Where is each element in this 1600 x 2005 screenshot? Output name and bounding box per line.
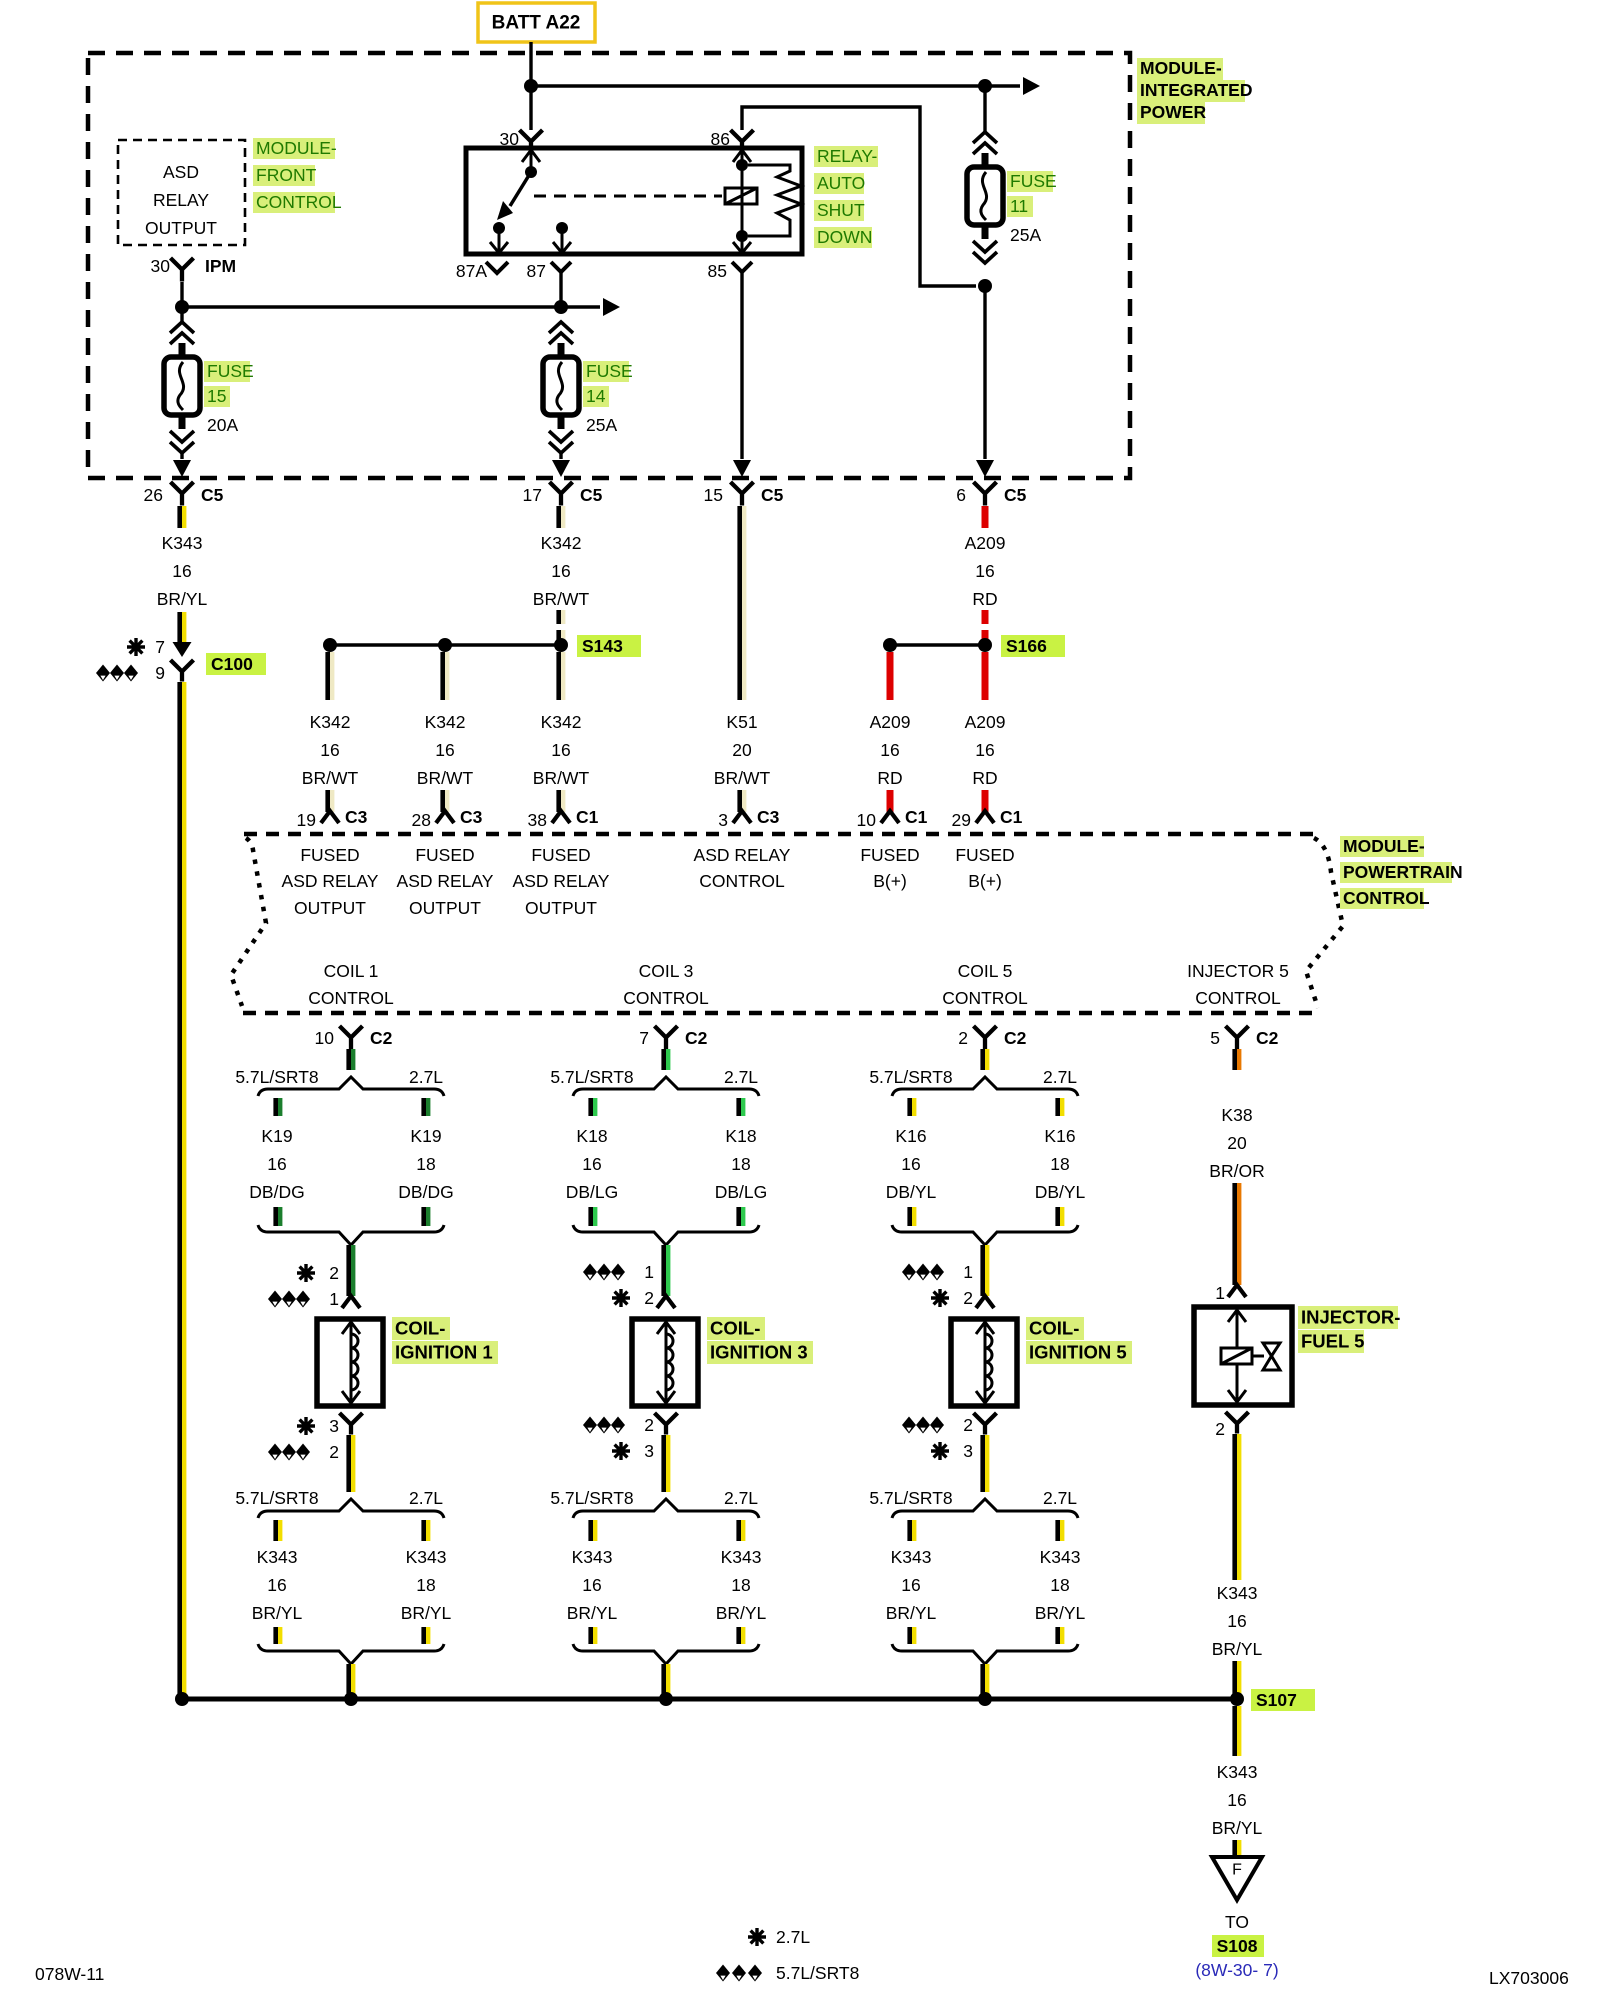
wire battery bus down to relay pin 30	[529, 86, 532, 130]
svg-text:C5: C5	[761, 485, 784, 505]
svg-text:RELAY: RELAY	[153, 190, 209, 210]
wire stub 5.7L coil 1 lower	[273, 1207, 282, 1226]
wire label A209 16 RD branch 2	[965, 712, 1006, 788]
connector at ignition coil 1 top	[342, 1296, 360, 1308]
wire K343 below injector	[1232, 1434, 1241, 1580]
PCM pin function INJECTOR 5 CONTROL	[1187, 961, 1289, 1008]
wire coil 5 ground run to S107	[980, 1664, 989, 1699]
splice S166	[883, 635, 1065, 657]
svg-text:K343: K343	[162, 533, 203, 553]
svg-text:LX703006: LX703006	[1489, 1968, 1569, 1988]
relay switch blade	[497, 172, 531, 220]
svg-text:28: 28	[412, 810, 431, 830]
wire coil 3 ground run to S107	[661, 1664, 670, 1699]
split brace coil 5 lower	[892, 1499, 1078, 1518]
svg-text:BR/WT: BR/WT	[533, 768, 590, 788]
wire coil 1 control below C2	[346, 1049, 355, 1070]
wire IPM output bus with arrow	[182, 298, 620, 316]
svg-text:16: 16	[267, 1575, 286, 1595]
svg-text:2: 2	[644, 1288, 654, 1308]
svg-text:K16: K16	[895, 1126, 926, 1146]
svg-text:K343: K343	[572, 1547, 613, 1567]
svg-text:K343: K343	[1040, 1547, 1081, 1567]
svg-text:18: 18	[416, 1154, 435, 1174]
svg-text:CONTROL: CONTROL	[1343, 888, 1430, 908]
svg-text:16: 16	[435, 740, 454, 760]
svg-text:30: 30	[151, 256, 171, 276]
junction fuse 11 output	[978, 279, 992, 293]
svg-text:CONTROL: CONTROL	[623, 988, 709, 1008]
svg-text:1: 1	[329, 1289, 339, 1309]
svg-text:BR/YL: BR/YL	[401, 1603, 452, 1623]
svg-text:C3: C3	[460, 807, 483, 827]
svg-text:OUTPUT: OUTPUT	[145, 218, 217, 238]
wire label K343 16 BR/YL	[157, 533, 208, 609]
svg-text:C3: C3	[345, 807, 368, 827]
svg-text:BR/YL: BR/YL	[567, 1603, 618, 1623]
svg-text:K343: K343	[721, 1547, 762, 1567]
svg-text:OUTPUT: OUTPUT	[409, 898, 481, 918]
wire stub to merge coil 5 left	[907, 1627, 916, 1644]
svg-text:K19: K19	[261, 1126, 292, 1146]
svg-text:16: 16	[1227, 1611, 1246, 1631]
svg-text:87: 87	[527, 261, 546, 281]
wire stub K343 18 coil 5	[1055, 1520, 1064, 1541]
wire stub K343 16 coil 5	[907, 1520, 916, 1541]
svg-text:2: 2	[329, 1263, 339, 1283]
svg-text:ASD RELAY: ASD RELAY	[282, 871, 379, 891]
injector pin 2 connector	[1215, 1412, 1248, 1439]
battery feed label box BATT A22	[478, 3, 595, 42]
svg-text:5: 5	[1210, 1028, 1220, 1048]
svg-text:6: 6	[956, 485, 966, 505]
svg-text:20: 20	[1227, 1133, 1247, 1153]
svg-text:2: 2	[1215, 1419, 1225, 1439]
svg-text:RD: RD	[972, 589, 997, 609]
wire A209 dashes to S166	[982, 610, 989, 641]
wire coil 3 control below C2	[661, 1049, 670, 1070]
connector C5 pin 26	[144, 482, 224, 506]
wire label K342 16 BR/WT branch 1	[302, 712, 359, 788]
engine option labels 5.7L/SRT8 and 2.7L coil 5 lower	[869, 1488, 1077, 1508]
coil 1 bottom pin symbols	[268, 1416, 339, 1462]
wire stub 2.7L coil 3 lower	[736, 1207, 745, 1226]
wire label K342 16 BR/WT branch 2	[417, 712, 474, 788]
relay internal pin 85 arrow	[733, 236, 751, 253]
wire stub to merge coil 1 right	[421, 1627, 430, 1644]
svg-text:SHUT: SHUT	[817, 200, 865, 220]
svg-text:COIL-: COIL-	[395, 1318, 445, 1339]
svg-text:2.7L: 2.7L	[409, 1488, 443, 1508]
svg-text:CONTROL: CONTROL	[1195, 988, 1281, 1008]
svg-text:5.7L/SRT8: 5.7L/SRT8	[235, 1488, 318, 1508]
label COIL-IGNITION 1	[392, 1317, 498, 1364]
split brace coil 3 lower	[573, 1499, 759, 1518]
svg-text:FUSED: FUSED	[531, 845, 590, 865]
svg-text:A209: A209	[965, 712, 1006, 732]
wire S143 branch 3	[556, 652, 565, 700]
svg-text:K343: K343	[1217, 1583, 1258, 1603]
svg-text:K38: K38	[1221, 1105, 1252, 1125]
svg-text:BR/WT: BR/WT	[417, 768, 474, 788]
svg-text:16: 16	[320, 740, 339, 760]
connector C1 pin 29	[952, 807, 1023, 830]
svg-text:16: 16	[880, 740, 899, 760]
svg-text:RELAY-: RELAY-	[817, 146, 877, 166]
wire K343 main run to S107	[177, 682, 186, 1699]
svg-text:5.7L/SRT8: 5.7L/SRT8	[550, 1067, 633, 1087]
relay blade pivot node	[525, 166, 537, 178]
svg-text:C3: C3	[757, 807, 780, 827]
svg-text:078W-11: 078W-11	[35, 1964, 104, 1984]
label RELAY-AUTO SHUT DOWN	[814, 146, 878, 248]
junction battery bus to fuse 11	[978, 79, 992, 93]
relay coil bottom node	[736, 230, 748, 242]
wire label K343 16 BR/YL below S107	[1212, 1762, 1263, 1838]
svg-text:5.7L/SRT8: 5.7L/SRT8	[235, 1067, 318, 1087]
wire stub to merge coil 3 right	[736, 1627, 745, 1644]
wire stub 5.7L coil 1 upper	[273, 1098, 282, 1116]
engine option labels 5.7L/SRT8 and 2.7L coil 1 upper	[235, 1067, 443, 1087]
wire label K343 16 BR/YL coil 5	[886, 1547, 937, 1623]
relay coil element	[725, 188, 757, 204]
svg-text:C5: C5	[201, 485, 224, 505]
svg-text:S107: S107	[1256, 1690, 1297, 1710]
wire label A209 16 RD	[965, 533, 1006, 609]
relay coil control dashed line	[534, 195, 722, 198]
drawing number LX703006	[1489, 1968, 1569, 1988]
connector at ignition coil 3 top	[657, 1296, 675, 1308]
PCM pin function FUSED B(+) 1	[860, 845, 919, 891]
svg-text:OUTPUT: OUTPUT	[294, 898, 366, 918]
svg-text:K343: K343	[1217, 1762, 1258, 1782]
svg-text:16: 16	[551, 561, 570, 581]
wire stub 2.7L coil 5 upper	[1055, 1098, 1064, 1116]
svg-text:2.7L: 2.7L	[409, 1067, 443, 1087]
svg-text:2.7L: 2.7L	[724, 1067, 758, 1087]
merge brace coil 5 upper	[892, 1225, 1078, 1245]
wire stub to merge coil 3 left	[588, 1627, 597, 1644]
engine option labels 5.7L/SRT8 and 2.7L coil 3 upper	[550, 1067, 758, 1087]
svg-text:BR/WT: BR/WT	[533, 589, 590, 609]
svg-text:DB/LG: DB/LG	[715, 1182, 768, 1202]
svg-text:15: 15	[207, 386, 226, 406]
PCM pin function FUSED B(+) 2	[955, 845, 1014, 891]
wire K343 to C100 with arrow	[173, 612, 192, 657]
label COIL-IGNITION 3	[707, 1317, 813, 1364]
svg-text:B(+): B(+)	[968, 871, 1002, 891]
coil 5 top pin symbols	[902, 1262, 973, 1308]
svg-text:K18: K18	[576, 1126, 607, 1146]
wire coil 1 ground run to S107	[346, 1664, 355, 1699]
wire below ignition coil 1	[346, 1435, 355, 1492]
wire label K343 16 BR/YL injector	[1212, 1583, 1263, 1659]
svg-text:OUTPUT: OUTPUT	[525, 898, 597, 918]
ignition coil 1 box	[317, 1319, 383, 1406]
ASD relay output dashed box	[118, 140, 245, 245]
svg-text:3: 3	[963, 1441, 973, 1461]
wire below ignition coil 3	[661, 1435, 670, 1492]
svg-text:BR/YL: BR/YL	[886, 1603, 937, 1623]
svg-text:2: 2	[644, 1415, 654, 1435]
merge brace coil 5 lower	[892, 1644, 1078, 1664]
wire S166 branch 1	[887, 652, 894, 700]
svg-text:16: 16	[975, 740, 994, 760]
svg-text:B(+): B(+)	[873, 871, 907, 891]
svg-text:ASD RELAY: ASD RELAY	[694, 845, 791, 865]
relay internal pin 86 arrow	[733, 150, 751, 165]
svg-text:INTEGRATED: INTEGRATED	[1140, 80, 1252, 100]
svg-text:9: 9	[155, 663, 165, 683]
engine option labels 5.7L/SRT8 and 2.7L coil 3 lower	[550, 1488, 758, 1508]
svg-text:K343: K343	[406, 1547, 447, 1567]
svg-text:S166: S166	[1006, 636, 1047, 656]
svg-text:5.7L/SRT8: 5.7L/SRT8	[869, 1067, 952, 1087]
svg-text:INJECTOR 5: INJECTOR 5	[1187, 961, 1289, 981]
PCM pin function FUSED ASD RELAY OUTPUT 1	[282, 845, 379, 918]
wire label K343 16 BR/YL coil 1	[252, 1547, 303, 1623]
svg-text:2.7L: 2.7L	[1043, 1488, 1077, 1508]
svg-text:BR/YL: BR/YL	[1212, 1639, 1263, 1659]
svg-text:16: 16	[267, 1154, 286, 1174]
PCM pin function ASD RELAY CONTROL	[694, 845, 791, 891]
svg-text:K342: K342	[425, 712, 466, 732]
svg-text:CONTROL: CONTROL	[942, 988, 1028, 1008]
wire stub 2.7L coil 3 upper	[736, 1098, 745, 1116]
wire label K343 16 BR/YL coil 3	[567, 1547, 618, 1623]
svg-text:16: 16	[901, 1154, 920, 1174]
label TO S108	[1212, 1912, 1264, 1957]
svg-text:2.7L: 2.7L	[776, 1927, 810, 1947]
relay coil top node	[736, 159, 748, 171]
svg-text:RD: RD	[877, 768, 902, 788]
PCM pin function COIL 5 CONTROL	[942, 961, 1028, 1008]
engine option labels 5.7L/SRT8 and 2.7L coil 5 upper	[869, 1067, 1077, 1087]
connector C2 pin 7	[639, 1026, 707, 1050]
wire K38 to injector	[1232, 1183, 1241, 1285]
svg-text:K16: K16	[1044, 1126, 1075, 1146]
relay contact 87A node	[493, 222, 505, 234]
svg-text:18: 18	[416, 1575, 435, 1595]
wire stub to connector C3 pin 3	[737, 790, 746, 812]
label MODULE-POWERTRAIN CONTROL	[1340, 836, 1463, 909]
svg-text:18: 18	[1050, 1154, 1069, 1174]
relay internal 87 arrow	[553, 228, 571, 253]
wire into ignition coil 5	[980, 1245, 989, 1296]
svg-text:5.7L/SRT8: 5.7L/SRT8	[550, 1488, 633, 1508]
svg-text:18: 18	[731, 1575, 750, 1595]
wire relay pin 86 to downstream of fuse 11	[742, 107, 976, 286]
svg-text:FUSE: FUSE	[586, 361, 633, 381]
split brace coil 3 upper	[573, 1077, 759, 1096]
svg-text:7: 7	[639, 1028, 649, 1048]
svg-text:25A: 25A	[1010, 225, 1041, 245]
PCM pin function COIL 1 CONTROL	[308, 961, 394, 1008]
wire stub K343 16 coil 3	[588, 1520, 597, 1541]
svg-text:FUSED: FUSED	[860, 845, 919, 865]
svg-text:C1: C1	[905, 807, 928, 827]
connector C2 pin 10	[315, 1026, 393, 1050]
splice S107 bus	[175, 1689, 1315, 1711]
connector C5 pin 15	[704, 482, 784, 506]
wire label K19 16 DB/DG	[249, 1126, 304, 1202]
svg-text:2: 2	[958, 1028, 968, 1048]
legend 5.7L/SRT8	[716, 1963, 859, 1983]
wire coil 5 control below C2	[980, 1049, 989, 1070]
wire stub 5.7L coil 3 lower	[588, 1207, 597, 1226]
svg-text:A209: A209	[870, 712, 911, 732]
svg-text:ASD: ASD	[163, 162, 199, 182]
wire K343 below S107	[1232, 1706, 1241, 1756]
svg-text:MODULE-: MODULE-	[1140, 58, 1222, 78]
relay-auto shut down box K1	[466, 148, 802, 254]
wire stub to connector C3 pin 19	[325, 790, 334, 812]
svg-text:10: 10	[857, 810, 877, 830]
wire stub 5.7L coil 3 upper	[588, 1098, 597, 1116]
wire label K19 18 DB/DG	[398, 1126, 453, 1202]
svg-text:POWER: POWER	[1140, 102, 1206, 122]
svg-text:C2: C2	[1256, 1028, 1279, 1048]
coil 1 top pin symbols	[268, 1263, 339, 1309]
svg-text:IGNITION 1: IGNITION 1	[395, 1342, 493, 1363]
merge brace coil 1 lower	[258, 1644, 444, 1664]
svg-text:K342: K342	[541, 533, 582, 553]
svg-text:2.7L: 2.7L	[724, 1488, 758, 1508]
wire stub 5.7L coil 5 lower	[907, 1207, 916, 1226]
svg-text:CONTROL: CONTROL	[699, 871, 785, 891]
svg-text:5.7L/SRT8: 5.7L/SRT8	[776, 1963, 859, 1983]
label COIL-IGNITION 5	[1026, 1317, 1132, 1364]
wire label K18 18 DB/LG	[715, 1126, 768, 1202]
svg-text:C1: C1	[576, 807, 599, 827]
svg-text:K342: K342	[310, 712, 351, 732]
svg-text:BR/YL: BR/YL	[157, 589, 208, 609]
svg-text:BATT A22: BATT A22	[492, 13, 581, 34]
svg-text:DB/YL: DB/YL	[886, 1182, 937, 1202]
relay internal 87A arrow	[490, 228, 508, 253]
split brace coil 1 lower	[258, 1499, 444, 1518]
svg-text:BR/WT: BR/WT	[302, 768, 359, 788]
svg-text:18: 18	[1050, 1575, 1069, 1595]
PCM pin function FUSED ASD RELAY OUTPUT 2	[397, 845, 494, 918]
svg-text:COIL 3: COIL 3	[639, 961, 694, 981]
svg-text:1: 1	[963, 1262, 973, 1282]
IPM pin 30 connector IPM	[151, 256, 237, 281]
svg-text:16: 16	[582, 1575, 601, 1595]
wire label K343 18 BR/YL coil 1	[401, 1547, 452, 1623]
injector pin 1 connector	[1215, 1283, 1246, 1303]
wire K51 below C5-15	[737, 506, 746, 700]
connector at ignition coil 5 top	[976, 1296, 994, 1308]
connector at ignition coil 1 bottom	[340, 1413, 363, 1435]
merge brace coil 1 upper	[258, 1225, 444, 1245]
ignition coil 5 box	[951, 1319, 1017, 1406]
wire below ignition coil 5	[980, 1435, 989, 1492]
svg-text:FUSED: FUSED	[300, 845, 359, 865]
wire stub K343 16 coil 1	[273, 1520, 282, 1541]
svg-text:COIL-: COIL-	[710, 1318, 760, 1339]
fuse F15	[164, 307, 200, 453]
relay pin 85 connector	[708, 261, 752, 281]
wire label K16 16 DB/YL	[886, 1126, 937, 1202]
svg-text:ASD RELAY: ASD RELAY	[397, 871, 494, 891]
wire label K343 18 BR/YL coil 5	[1035, 1547, 1086, 1623]
svg-text:2: 2	[963, 1288, 973, 1308]
wire K342 below C5-17	[556, 506, 565, 528]
wire label K38 20 BR/OR	[1209, 1105, 1264, 1181]
wire label K18 16 DB/LG	[566, 1126, 619, 1202]
svg-text:10: 10	[315, 1028, 335, 1048]
engine option labels 5.7L/SRT8 and 2.7L coil 1 lower	[235, 1488, 443, 1508]
wire stub K343 18 coil 3	[736, 1520, 745, 1541]
svg-text:C5: C5	[1004, 485, 1027, 505]
junction at battery feed split	[524, 79, 538, 93]
relay contact 87 node	[556, 222, 568, 234]
svg-text:FRONT: FRONT	[256, 165, 317, 185]
wire label K342 16 BR/WT branch 3	[533, 712, 590, 788]
svg-text:BR/OR: BR/OR	[1209, 1161, 1264, 1181]
svg-text:16: 16	[1227, 1790, 1246, 1810]
wire stub 2.7L coil 5 lower	[1055, 1207, 1064, 1226]
svg-text:19: 19	[297, 810, 316, 830]
svg-text:16: 16	[901, 1575, 920, 1595]
connector C3 pin 3	[718, 807, 779, 830]
wire S166 branch 2	[982, 652, 989, 700]
relay pin 30 connector	[500, 129, 543, 149]
svg-text:16: 16	[172, 561, 191, 581]
reference (8W-30-7)	[1195, 1960, 1278, 1980]
splice S143	[323, 635, 641, 657]
wire from BATT A22 into IPM	[529, 42, 532, 86]
svg-text:C1: C1	[1000, 807, 1023, 827]
wire K343 below C5-26	[177, 506, 186, 528]
relay resistor	[748, 165, 801, 236]
svg-text:3: 3	[329, 1416, 339, 1436]
ignition coil 3 box	[632, 1319, 698, 1406]
relay internal coil wire	[741, 165, 744, 236]
coil 3 bottom pin symbols	[583, 1415, 654, 1461]
svg-text:26: 26	[144, 485, 163, 505]
svg-text:2: 2	[963, 1415, 973, 1435]
svg-text:DB/YL: DB/YL	[1035, 1182, 1086, 1202]
svg-text:AUTO: AUTO	[817, 173, 865, 193]
svg-text:C2: C2	[685, 1028, 708, 1048]
svg-text:TO: TO	[1225, 1912, 1249, 1932]
sheet number 078W-11	[35, 1964, 104, 1984]
svg-text:FUEL 5: FUEL 5	[1301, 1331, 1364, 1352]
wire fuse 15 to C5 pin 26	[173, 452, 191, 477]
wire into ignition coil 3	[661, 1245, 670, 1296]
svg-text:DOWN: DOWN	[817, 227, 872, 247]
wire K343 to ground symbol	[1232, 1840, 1241, 1857]
merge brace coil 3 lower	[573, 1644, 759, 1664]
svg-text:INJECTOR-: INJECTOR-	[1301, 1307, 1400, 1328]
svg-text:2: 2	[329, 1442, 339, 1462]
connector C5 pin 17	[523, 482, 603, 506]
wire label K51 20 BR/WT	[714, 712, 771, 788]
svg-text:COIL 1: COIL 1	[324, 961, 379, 981]
svg-text:K18: K18	[725, 1126, 756, 1146]
wire IPM output junction	[175, 282, 189, 314]
connector C1 pin 38	[528, 807, 599, 830]
svg-text:IPM: IPM	[205, 256, 236, 276]
svg-text:87A: 87A	[456, 261, 487, 281]
svg-text:BR/YL: BR/YL	[1035, 1603, 1086, 1623]
svg-text:COIL 5: COIL 5	[958, 961, 1013, 981]
svg-text:K342: K342	[541, 712, 582, 732]
label MODULE-INTEGRATED POWER	[1137, 58, 1252, 124]
connector at ignition coil 5 bottom	[974, 1413, 997, 1435]
